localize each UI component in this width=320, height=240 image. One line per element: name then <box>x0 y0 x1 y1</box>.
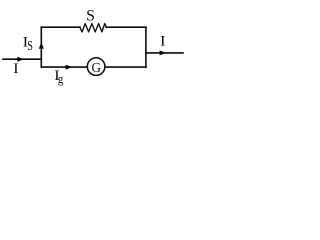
current arrow I input <box>17 57 24 62</box>
svg-text:S: S <box>86 7 95 24</box>
wire top rail left segment <box>41 26 80 28</box>
resistor S <box>80 24 107 32</box>
current arrow Is up on left vertical <box>39 42 44 49</box>
svg-text:G: G <box>92 59 102 74</box>
svg-text:I: I <box>160 33 165 50</box>
wire top rail right segment <box>106 26 146 28</box>
svg-text:S: S <box>27 37 33 53</box>
wire galvanometer branch left <box>41 66 87 68</box>
wire left vertical branch <box>40 27 42 67</box>
wire right vertical branch <box>145 27 147 67</box>
wire input lead <box>3 58 41 60</box>
svg-text:I: I <box>13 60 18 77</box>
galvanometer U1 circle <box>87 58 105 76</box>
current arrow Ig on galvanometer branch <box>66 65 73 70</box>
wire output lead <box>146 52 183 54</box>
current arrow I output <box>160 50 167 55</box>
svg-text:g: g <box>58 71 63 86</box>
wire galvanometer branch right <box>105 66 146 68</box>
